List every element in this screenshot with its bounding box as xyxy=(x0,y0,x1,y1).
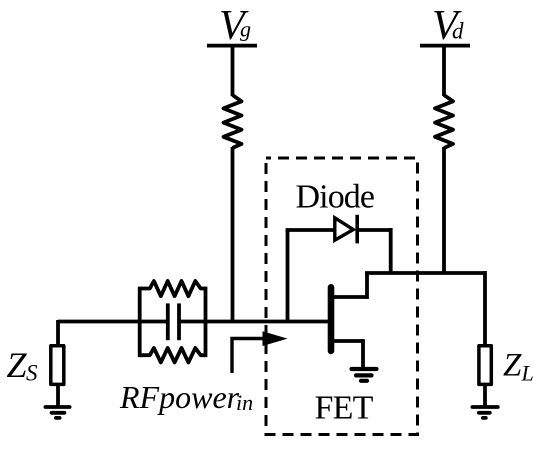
resistor (top of RC tank) xyxy=(140,281,206,296)
svg-text:Diode: Diode xyxy=(296,179,375,216)
capacitor left plate xyxy=(166,303,170,340)
RF input arrowhead xyxy=(263,332,286,345)
svg-text:FET: FET xyxy=(315,390,374,427)
wire diode branch vertical (gate to diode anode) xyxy=(286,230,290,323)
svg-text:RFpower: RFpower xyxy=(119,379,240,415)
matching network left edge xyxy=(138,287,142,358)
impedance ZL box xyxy=(479,346,491,385)
svg-text:in: in xyxy=(236,390,253,415)
svg-text:g: g xyxy=(240,16,251,41)
wire diode cathode xyxy=(357,228,391,232)
wire input line left segment xyxy=(58,320,166,324)
svg-text:d: d xyxy=(452,19,464,44)
svg-text:S: S xyxy=(26,361,38,386)
resistor (bottom of RC tank) xyxy=(140,348,206,362)
wire Vg terminal to resistor xyxy=(231,47,235,96)
diode D1 cathode bar xyxy=(355,215,359,244)
Vg supply terminal bar xyxy=(207,44,257,48)
FET gate bar xyxy=(328,287,335,351)
svg-text:L: L xyxy=(521,361,534,386)
wire Rd to drain node xyxy=(442,147,446,273)
resistor Rd (drain bias) xyxy=(435,95,453,148)
resistor Rg (gate bias) xyxy=(224,95,242,148)
FET drain stub xyxy=(332,295,367,299)
wire input line right segment to gate xyxy=(181,320,330,324)
wire Zs box to ground xyxy=(56,386,60,407)
wire Vd terminal to resistor xyxy=(442,47,446,96)
wire diode anode xyxy=(286,228,334,232)
RF input arrow line xyxy=(232,339,264,374)
impedance ZS box xyxy=(51,346,64,385)
dashed enclosure box xyxy=(266,158,418,435)
FET drain riser xyxy=(365,273,369,299)
wire diode cathode drop to drain node xyxy=(389,228,393,273)
ground (source side) xyxy=(45,407,69,418)
svg-text:Z: Z xyxy=(7,345,28,385)
FET source stub xyxy=(332,339,363,343)
svg-text:Z: Z xyxy=(503,348,522,384)
wire ZL box to ground xyxy=(483,386,487,407)
wire Rg to input node xyxy=(231,147,235,323)
FET source drop xyxy=(361,339,365,367)
wire drain top line xyxy=(365,271,485,275)
ground (FET source) xyxy=(352,369,377,381)
wire Zs drop xyxy=(56,320,60,344)
wire ZL drop xyxy=(483,271,487,344)
capacitor right plate xyxy=(177,303,181,340)
diode D1 triangle (hollow) xyxy=(335,218,354,240)
Vd supply terminal bar xyxy=(420,44,470,48)
matching network right edge xyxy=(204,287,208,358)
ground (load side) xyxy=(472,407,497,418)
